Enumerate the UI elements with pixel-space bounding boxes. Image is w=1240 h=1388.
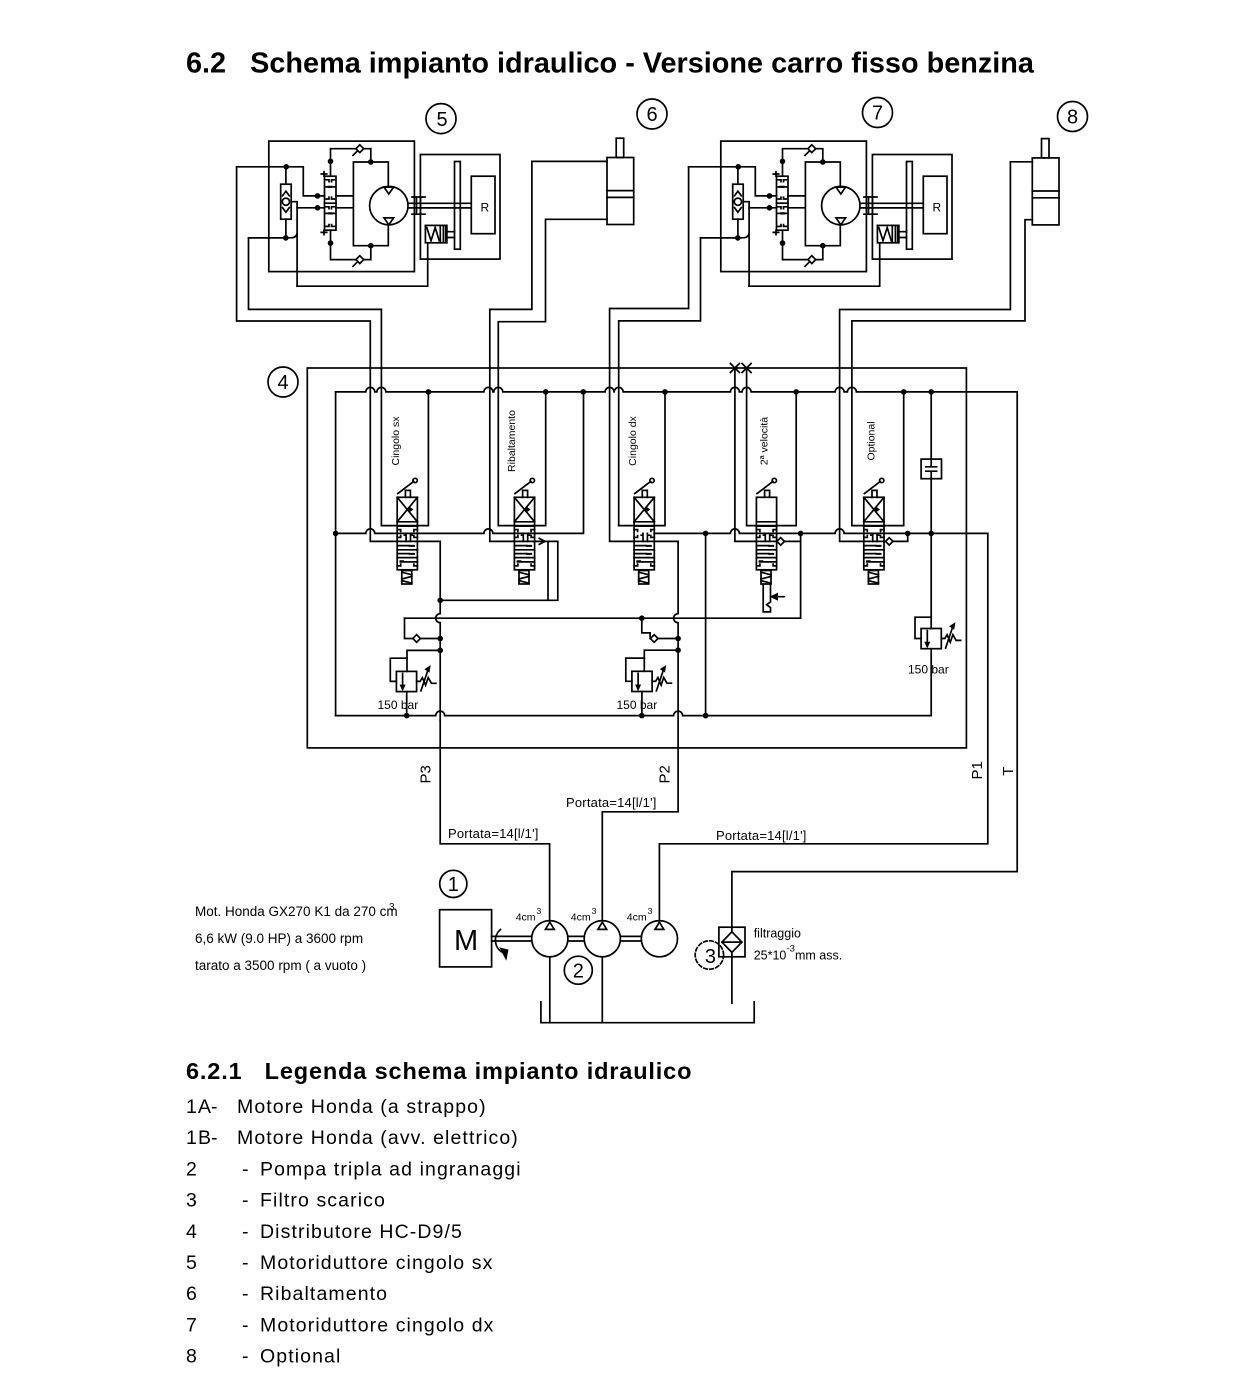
section box 5 Optional [852,392,904,526]
filter drain [731,957,733,1003]
svg-text:2: 2 [573,960,584,982]
circled number 6 [637,99,667,129]
pump suction lines [550,957,603,1023]
wire bus2 right segment (P1 pressure) [654,529,988,534]
circled number 7 [863,98,893,128]
svg-text:-: - [242,1158,250,1180]
svg-text:3: 3 [389,902,395,913]
wire valve2 A-port with flow arrow [440,541,558,600]
orifice / plug block on T link x=931.2 [930,392,932,534]
motor-reducer block 7 [689,141,952,286]
cylinder 6 Ribaltamento [607,138,634,224]
svg-text:6,6 kW (9.0 HP) a 3600 rpm: 6,6 kW (9.0 HP) a 3600 rpm [195,931,363,946]
wire left tank manifold [335,392,337,716]
svg-text:8: 8 [186,1346,198,1368]
pump shafts [492,936,642,941]
svg-text:Motore Honda (a strappo): Motore Honda (a strappo) [237,1096,487,1118]
valve V4 2a velocita [756,478,776,584]
svg-text:-3: -3 [787,944,795,955]
svg-text:5: 5 [186,1252,198,1274]
relief valve RV1 150 bar [390,650,440,715]
svg-text:-: - [242,1221,250,1243]
svg-text:-: - [242,1190,250,1212]
relief valve RV2 150 bar [626,650,678,715]
valve V2 Ribaltamento [514,478,534,584]
wire bus2 left segment y=533.4 [336,392,584,534]
svg-text:Portata=14[l/1']: Portata=14[l/1'] [448,826,539,841]
rotation arrow [495,930,503,954]
svg-text:Cingolo dx: Cingolo dx [627,415,639,465]
svg-text:2ª velocità: 2ª velocità [758,417,770,465]
wire valve5 A-port + check valve CV5 [884,533,908,545]
svg-text:Portata=14[l/1']: Portata=14[l/1'] [716,828,807,843]
wire cyl8 top port to section5 [840,162,1033,542]
svg-text:6: 6 [646,104,657,126]
wire cyl6 bottom port to section2 box [498,219,607,525]
wire T return riser [732,392,1017,927]
svg-text:2: 2 [186,1158,198,1180]
junction dots distributor [333,389,934,718]
wire pilot left leg + check valve CV1 [405,618,413,638]
wire plugged stub section4 left [735,368,777,541]
svg-text:filtraggio: filtraggio [754,927,801,941]
wire cyl8 bottom port to section5 box [852,220,1032,526]
svg-text:Filtro scarico: Filtro scarico [260,1190,386,1212]
circled number 8 [1058,102,1088,132]
wire P3 riser x=440.2 [436,541,550,920]
svg-text:1: 1 [448,874,459,896]
svg-text:-: - [211,1127,219,1149]
wire cyl6 top port to section2 [490,161,607,541]
gear pump 2c [641,921,677,957]
distributor U1 HC-D9/5 enclosure [307,368,966,748]
svg-text:Mot. Honda GX270 K1 da 270 cm: Mot. Honda GX270 K1 da 270 cm [195,904,398,919]
wire P2 riser x=678.1 [602,541,678,920]
svg-text:T: T [1000,767,1017,776]
svg-text:Cingolo sx: Cingolo sx [390,416,402,466]
svg-text:P2: P2 [657,765,674,783]
svg-text:Motore Honda (avv. elettrico): Motore Honda (avv. elettrico) [237,1127,519,1149]
svg-text:4cm: 4cm [627,912,647,924]
relief valve RV3 150 bar [915,533,961,715]
wire pilot mid leg + check valve CV2 [642,618,650,633]
filter 3 [719,927,745,957]
wire bus1 tank return y=391.9 with jump-overs [336,387,1018,392]
circled number 5 [426,104,456,134]
svg-text:P1: P1 [969,761,986,779]
svg-text:6: 6 [186,1283,198,1305]
svg-text:tarato a 3500 rpm ( a vuoto ): tarato a 3500 rpm ( a vuoto ) [195,958,366,973]
svg-text:Ribaltamento: Ribaltamento [506,410,518,472]
svg-text:Motoriduttore cingolo dx: Motoriduttore cingolo dx [260,1314,495,1336]
svg-text:mm ass.: mm ass. [795,949,842,963]
svg-text:6.2 Schema impianto idraulic: 6.2 Schema impianto idraulico - Versione… [186,48,1035,80]
svg-text:25*10: 25*10 [754,949,787,963]
svg-text:4: 4 [186,1221,198,1243]
wire valve4 pilot drop from bus2 [800,533,802,618]
gear pump 2a [532,921,568,957]
svg-text:Motoriduttore cingolo sx: Motoriduttore cingolo sx [260,1252,493,1274]
cylinder 8 Optional [1032,139,1059,225]
svg-text:7: 7 [872,103,883,125]
wire bus3 y=715.6 with jump-overs [336,711,932,716]
gear pump 2b [584,921,620,957]
svg-text:4cm: 4cm [571,912,591,924]
svg-text:7: 7 [186,1314,198,1336]
svg-text:Distributore HC-D9/5: Distributore HC-D9/5 [260,1221,463,1243]
svg-text:150 bar: 150 bar [378,698,419,712]
motor-reducer block 5 [237,141,500,286]
wire 2nd-speed pilot line y=618.2 [405,617,801,619]
svg-text:Ribaltamento: Ribaltamento [260,1283,388,1305]
engine M box [440,910,492,967]
circled number 2 [564,956,592,984]
svg-text:-: - [211,1096,219,1118]
svg-text:6.2.1 Legenda schema impiant: 6.2.1 Legenda schema impianto idraulico [186,1058,692,1084]
svg-text:-: - [242,1346,250,1368]
svg-text:150 bar: 150 bar [617,698,658,712]
section box 1 Cingolo sx [381,392,428,526]
svg-text:3: 3 [592,906,597,916]
legend items [186,1096,522,1368]
valve V1 Cingolo sx [397,478,417,584]
svg-text:3: 3 [648,906,653,916]
check valve CV4 on valve4 A-port [777,538,801,546]
svg-text:3: 3 [537,906,542,916]
circled number 4 [268,367,298,397]
section box 3 Cingolo dx [619,392,665,526]
svg-text:3: 3 [705,946,716,968]
svg-text:Optional: Optional [866,421,878,460]
svg-text:150 bar: 150 bar [908,663,949,677]
svg-text:-: - [242,1252,250,1274]
svg-text:Pompa tripla ad ingranaggi: Pompa tripla ad ingranaggi [260,1158,522,1180]
svg-text:4: 4 [277,372,288,394]
wire bus2-bus3 drop x=705.6 [705,533,707,715]
svg-text:5: 5 [436,109,447,131]
wire block7 A to section3 [610,167,689,542]
wire block5 B to section1 box [249,238,382,526]
section box 2 Ribaltamento [498,392,545,526]
svg-text:3: 3 [186,1190,198,1212]
valve V4 pilot plunger [763,584,770,612]
valve V3 Cingolo dx [634,478,654,584]
svg-text:-: - [242,1283,250,1305]
svg-text:M: M [454,925,478,957]
plugged port X marks on enclosure top edge [730,364,751,373]
section box 4 2a velocita [747,368,797,526]
svg-text:4cm: 4cm [516,912,536,924]
svg-text:1B: 1B [186,1127,212,1149]
wire P1 riser [659,533,987,920]
svg-text:Optional: Optional [260,1346,341,1368]
circled number 1 [440,870,467,897]
wire block7 B to section3 box [619,238,701,526]
valve V5 Optional [864,478,884,584]
circle label 3 [695,941,723,969]
svg-text:-: - [242,1314,250,1336]
wire block5 A to section1 [237,167,441,542]
svg-text:P3: P3 [418,765,435,783]
tank [541,1002,754,1023]
svg-text:8: 8 [1067,107,1078,129]
svg-text:1A: 1A [186,1096,212,1118]
svg-text:Portata=14[l/1']: Portata=14[l/1'] [566,795,657,810]
